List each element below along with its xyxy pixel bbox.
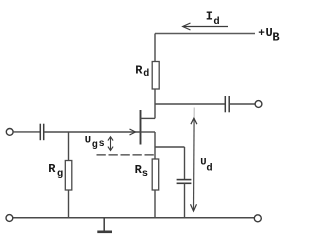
label Rg bbox=[48, 162, 63, 180]
transistor Q1 source lead bbox=[141, 131, 156, 133]
current arrow Id bbox=[183, 23, 228, 30]
wire Cs bottom plate to ground rail bbox=[184, 183, 186, 218]
resistor Rd bbox=[152, 62, 159, 90]
voltage arrow Ugs double-headed bbox=[108, 137, 113, 151]
node input terminal bottom bbox=[6, 215, 13, 222]
svg-text:g: g bbox=[57, 168, 63, 180]
dashed reference line bbox=[97, 154, 156, 156]
svg-text:B: B bbox=[272, 30, 279, 44]
svg-text:d: d bbox=[206, 162, 212, 174]
wire gate: capacitor to transistor bbox=[44, 131, 140, 133]
wire down to Cs top plate bbox=[184, 147, 186, 179]
svg-text:d: d bbox=[143, 68, 149, 80]
label Ud bbox=[200, 156, 213, 174]
svg-text:g: g bbox=[92, 140, 98, 151]
resistor Rs bbox=[152, 159, 159, 190]
ground symbol bbox=[97, 218, 112, 232]
wire Rg branch from gate node down bbox=[68, 132, 70, 161]
capacitor output coupling bbox=[225, 96, 229, 112]
capacitor Cs bbox=[177, 180, 192, 184]
label Rs bbox=[135, 163, 149, 180]
wire Rs bottom to ground rail bbox=[154, 190, 156, 218]
svg-text:U: U bbox=[85, 135, 91, 147]
transistor Q1 gate arrow bbox=[130, 129, 136, 135]
node output terminal bottom bbox=[254, 215, 261, 222]
wire source down to Rs bbox=[154, 132, 156, 159]
wire bottom ground rail bbox=[13, 217, 255, 219]
node input terminal top bbox=[6, 129, 13, 136]
resistor Rg bbox=[65, 161, 72, 191]
svg-text:R: R bbox=[135, 64, 143, 78]
svg-text:R: R bbox=[48, 162, 56, 176]
wire top supply rail bbox=[155, 33, 255, 35]
capacitor input coupling bbox=[40, 124, 43, 141]
wire source branch to Cs bbox=[155, 146, 185, 148]
transistor Q1 drain lead bbox=[141, 117, 156, 119]
voltage arrow Ud double-headed bbox=[191, 108, 197, 212]
wire Rd bottom to drain bbox=[154, 89, 156, 118]
wire input terminal to capacitor bbox=[13, 131, 40, 133]
svg-text:d: d bbox=[213, 16, 219, 28]
wire drain node to output capacitor bbox=[155, 103, 225, 105]
svg-text:+: + bbox=[258, 28, 265, 40]
label Rd bbox=[135, 64, 149, 80]
wire capacitor to output terminal bbox=[229, 103, 255, 105]
transistor Q1 n-JFET channel bbox=[140, 110, 142, 145]
label Ugs bbox=[85, 135, 105, 152]
label Id bbox=[206, 10, 220, 28]
svg-text:I: I bbox=[206, 10, 213, 24]
wire Rg bottom to ground rail bbox=[68, 190, 70, 218]
label +UB bbox=[258, 26, 279, 45]
svg-text:s: s bbox=[99, 139, 105, 150]
node output terminal top bbox=[255, 101, 262, 108]
svg-text:s: s bbox=[142, 168, 148, 180]
wire from top rail down to Rd bbox=[154, 34, 156, 62]
